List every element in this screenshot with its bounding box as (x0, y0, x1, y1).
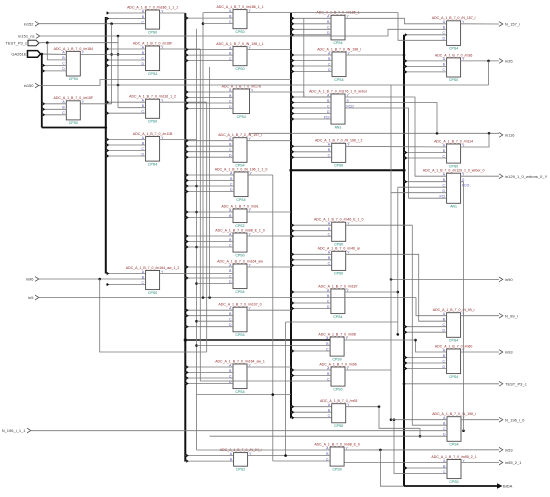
wire rail x118 (117, 36, 119, 108)
wire m15F Y (80, 103, 111, 105)
wire rail x200.3 (199, 49, 201, 381)
wire N_99_i output (461, 315, 499, 317)
svg-text:ADC_A_1_B_7_0_/m55_2_1: ADC_A_1_B_7_0_/m55_2_1 (431, 455, 476, 459)
svg-text:ADC_A_1_B_7_0_/m164_aw_1: ADC_A_1_B_7_0_/m164_aw_1 (215, 359, 265, 363)
wire net N_196_i_1_1 to G36 C (31, 430, 448, 432)
svg-text:CPS0: CPS0 (449, 78, 458, 82)
wire m46_ai Y (346, 254, 447, 321)
wire pin feeds 145.6 (106, 101, 146, 115)
svg-text:ADC_A_1_B_7_0_/N_196_1_1_0: ADC_A_1_B_7_0_/N_196_1_1_0 (215, 167, 268, 171)
bus vertical B4 x404 (403, 35, 405, 486)
wire G33 C feed (398, 186, 447, 188)
svg-text:CPS4: CPS4 (235, 390, 244, 394)
svg-text:CPS4: CPS4 (235, 290, 244, 294)
svg-text:ADC_A_1_B_7_0_/m98_E_1_0: ADC_A_1_B_7_0_/m98_E_1_0 (215, 228, 264, 232)
port in55_2_1 (499, 460, 522, 465)
svg-text:ADC_A_1_B_7_0_/m187: ADC_A_1_B_7_0_/m187 (318, 284, 357, 288)
wire pin feeds 446.6 (404, 325, 447, 334)
wire net in150 with jog (39, 80, 291, 86)
wire N_196_i_1 Y to m114 A (346, 145, 447, 148)
wire pin feeds 446.6 (404, 151, 447, 160)
bus BIDA horizontal y486 (404, 485, 497, 487)
svg-text:in152: in152 (24, 21, 35, 26)
svg-text:ADC_A_1_B_7_0_/m15F: ADC_A_1_B_7_0_/m15F (54, 96, 94, 100)
wire pin feeds 234.0 (185, 173, 234, 193)
wire pin feeds 145.6 (106, 138, 146, 158)
wire m107_0 Y (247, 309, 291, 311)
wire m164_aw_1_2 Y (160, 273, 233, 275)
svg-text:N_196_i_0: N_196_i_0 (505, 417, 525, 422)
gate ADC_A_1_B_7_0_/m15F (CPS0) (54, 96, 94, 125)
bus GA261E branch horizontal y127.5 (42, 127, 106, 129)
wire pin feeds 446.6 (404, 356, 447, 370)
svg-text:in90: in90 (505, 277, 513, 282)
svg-text:CPS0: CPS0 (69, 121, 78, 125)
wire pin feeds 233.0 (185, 265, 233, 279)
wire pin feeds 233.6 (185, 454, 233, 463)
port in150 (24, 83, 39, 88)
wire rail x303.8 (303, 18, 305, 97)
wire pin feeds 331.7 (291, 224, 332, 238)
svg-text:in55_2_1: in55_2_1 (505, 460, 522, 465)
svg-text:in93: in93 (505, 350, 513, 355)
svg-text:CPS0: CPS0 (449, 480, 458, 484)
wire in55_2_1 output (461, 462, 499, 464)
svg-text:TEST_P3_c: TEST_P3_c (5, 41, 27, 46)
port N_196_i_0 (499, 417, 525, 422)
svg-text:ADC_A_1_B_7_0_/m11B: ADC_A_1_B_7_0_/m11B (133, 132, 173, 136)
svg-text:ADC_A_1_B_7_0_/m46_ai: ADC_A_1_B_7_0_/m46_ai (318, 247, 360, 251)
wire m96 Y (345, 369, 391, 371)
svg-text:CPS4: CPS4 (333, 315, 342, 319)
svg-text:CPS4: CPS4 (148, 162, 157, 166)
svg-text:in116: in116 (505, 133, 515, 138)
gate ADC_A_1_B_7_0_/m98 (CPS0) (318, 332, 355, 361)
gate ADC_A_1_B_7_0_/N_196_i_1 (CPS0) (315, 139, 363, 168)
wire rail x206.7 (206, 102, 208, 352)
port BIDA (497, 483, 513, 489)
svg-text:CPS0: CPS0 (148, 120, 157, 124)
wire net in5 (39, 297, 416, 299)
svg-text:CPS4: CPS4 (235, 333, 244, 337)
gate ADC_A_1_B_7_0_/m98_E_0 (CPS0) (314, 442, 360, 471)
wire FCO chain m176 to m129 FCI (345, 108, 447, 198)
wire m11B Y (160, 139, 197, 141)
svg-text:in129_1_0_wrbors_0_Y: in129_1_0_wrbors_0_Y (505, 174, 548, 179)
svg-text:ADC_A_1_B_7_0_/m116_1_2: ADC_A_1_B_7_0_/m116_1_2 (129, 95, 176, 99)
svg-text:CPS0: CPS0 (334, 272, 343, 276)
wire m176 Y (250, 92, 332, 97)
wire rail x415.5 m98Y to m60 A (416, 340, 447, 352)
wire G26 B feed (197, 345, 331, 347)
wire pin feeds 233.0 (185, 210, 233, 219)
svg-text:ADC_A_1_B_7_0_/m129_1_0_wrbor_: ADC_A_1_B_7_0_/m129_1_0_wrbor_0 (423, 169, 485, 173)
wire rail x397.8 (397, 187, 399, 334)
svg-text:CPS4: CPS4 (148, 72, 157, 76)
wire in129 output (461, 175, 499, 177)
gate ADC_A_1_B_7_0_/m186_1 (CPS4) (316, 11, 359, 45)
wire rail x285.6 N_94_i Y branch (285, 322, 287, 456)
svg-text:CPS0: CPS0 (235, 30, 244, 34)
wire m46_E_1_0 Y (346, 224, 413, 226)
bus horizontal net y170 (291, 169, 404, 171)
wire m116_1_2 Y (160, 101, 207, 103)
wire pin feeds 447.0 (404, 466, 447, 469)
wire pin feeds 331.0 (291, 95, 331, 120)
wire G27 C feed (200, 380, 331, 382)
wire N_196_i_0 output (461, 419, 499, 421)
wire m186_1_1 Y (247, 12, 291, 14)
wire in96 branch (100, 279, 207, 352)
wire rail x203 (202, 13, 204, 298)
gate ADC_A_1_B_7_0_/N_94_i (CPS2) (220, 448, 262, 471)
wire m18F Y (160, 48, 201, 50)
wire y394 net (197, 394, 292, 396)
svg-text:ADC_A_1_B_7_0_/m60: ADC_A_1_B_7_0_/m60 (435, 344, 472, 348)
gate ADC_A_1_B_7_0_/m11B (CPS4) (133, 132, 173, 166)
gate ADC_A_1_B_7_0_/N_157_i (CPS4) (432, 16, 476, 50)
wire in35 loop down (488, 61, 490, 85)
wire in93 output (461, 351, 499, 353)
svg-text:ADC_A_1_B_7_0_/m98: ADC_A_1_B_7_0_/m98 (318, 332, 355, 336)
wire N_157_i output (461, 23, 499, 25)
port N_196_i_1_1 (2, 428, 31, 433)
svg-text:N_99_i: N_99_i (505, 313, 518, 318)
svg-text:ADC_A_1_B_7_0_/m176_1_0_wrbor: ADC_A_1_B_7_0_/m176_1_0_wrbor (309, 89, 368, 93)
wire pin feeds 233.0 (185, 16, 233, 19)
wire m114 Y loop (461, 133, 489, 147)
port N_157_i (499, 22, 520, 27)
wire rail x111.6 (111, 24, 113, 104)
svg-text:AN1: AN1 (335, 125, 342, 129)
svg-text:in151_ns: in151_ns (18, 34, 34, 39)
port in53 (499, 447, 513, 452)
gate ADC_A_1_B_7_0_/N_197_i (CPS4) (218, 133, 262, 167)
svg-text:ADC_A_1_B_7_0_/m18F: ADC_A_1_B_7_0_/m18F (133, 41, 173, 45)
wire pin feeds 331.7 (291, 253, 332, 267)
bus vertical B1 x106 (105, 17, 107, 274)
wire net in53 from m98_E_0 Y (344, 449, 499, 451)
wire m184 Y to m18F B (80, 53, 145, 55)
wire rail x196.5 (196, 29, 198, 450)
wire pin feeds 233.0 (185, 309, 233, 329)
wire N_196_1_1_0 Y (248, 174, 273, 176)
wire net in116 (249, 132, 499, 134)
svg-text:CPS4: CPS4 (449, 339, 458, 343)
wire m98_E_1_0 Y (247, 235, 291, 237)
svg-text:ADC_A_1_B_7_0_/m91: ADC_A_1_B_7_0_/m91 (221, 204, 258, 208)
wire rail x272.8 from N_196_1_1_0 Y (272, 175, 274, 461)
wire G37 A feed (345, 462, 448, 464)
wire pin feeds 233.0 (185, 234, 233, 248)
gate ADC_A_1_B_7_0_/N_196_1_1_0 (CPS4) (215, 167, 268, 201)
wire rail x209.6 (209, 67, 211, 298)
wire pin feeds 233.0 (185, 48, 233, 62)
svg-text:ADC_A_1_B_7_0_/m164_aw: ADC_A_1_B_7_0_/m164_aw (217, 259, 263, 263)
gate ADC_A_1_B_7_0_/m98_E_1_0 (CPS0) (215, 228, 264, 257)
svg-text:ADC_A_1_B_7_0_/N_198_i_1: ADC_A_1_B_7_0_/N_198_i_1 (216, 42, 264, 46)
svg-text:ADC_A_1_B_7_0_/m96: ADC_A_1_B_7_0_/m96 (319, 362, 356, 366)
svg-text:CPS4: CPS4 (236, 198, 245, 202)
wire m93 branch (379, 407, 420, 437)
wire pin feeds 331.7 (291, 405, 332, 419)
svg-text:ADC_A_1_B_7_0_/N_198_i: ADC_A_1_B_7_0_/N_198_i (317, 47, 361, 51)
gate ADC_A_1_B_7_0_/m96 (CPS0) (319, 362, 356, 391)
svg-text:CPS4: CPS4 (334, 78, 343, 82)
port in152 (24, 21, 39, 26)
svg-text:CPS4: CPS4 (449, 47, 458, 51)
wire G36 A feed (391, 419, 447, 421)
wire in53 riser to BIDA (380, 450, 404, 486)
bus vertical B3 x291 (290, 13, 292, 419)
svg-text:CPS0: CPS0 (235, 67, 244, 71)
wire net in90 (391, 278, 499, 280)
gate ADC_A_1_B_7_0_/m164_aw_1 (CPS4) (215, 359, 265, 393)
adder ADC_A_1_B_7_0_/m129_1_0_wrbor_0 (AN1) (423, 169, 485, 209)
svg-text:CPS0: CPS0 (148, 30, 157, 34)
svg-text:CPS2: CPS2 (235, 224, 244, 228)
wire m187 Y (345, 291, 398, 293)
wire pin feeds 233.0 (185, 90, 233, 110)
wire adder m176 Y to m129 A (345, 97, 447, 176)
svg-text:in35: in35 (505, 59, 513, 64)
gate ADC_A_1_B_7_0_/m18F (CPS4) (133, 41, 173, 75)
wire pin feeds 233.0 (185, 365, 233, 385)
gate ADC_A_1_B_7_0_/m107_0 (CPS4) (218, 303, 261, 337)
svg-text:CPS4: CPS4 (237, 115, 246, 119)
svg-text:CPS0: CPS0 (333, 467, 342, 471)
wire pin feeds 330.9 (291, 290, 331, 310)
wire G5 B feed (118, 107, 146, 109)
wire pin feeds 145.6 (106, 11, 146, 20)
svg-text:CPS0: CPS0 (333, 387, 342, 391)
wire pin feeds 233.0 (185, 139, 233, 159)
wire rail x463.5 m129 S down (461, 182, 464, 431)
gate ADC_A_1_B_7_0_/N_198_i_1 (CPS0) (216, 42, 264, 71)
port in151_ns (18, 34, 40, 39)
wire net y13 to N_157 D (291, 13, 447, 41)
svg-text:CPS0: CPS0 (333, 357, 342, 361)
svg-text:CPS0: CPS0 (334, 164, 343, 168)
gate ADC_A_1_B_7_0_/m164_aw_1_2 (CPS0) (126, 266, 180, 295)
wire pin feeds 446.6 (404, 180, 447, 183)
wire G16 C feed (197, 320, 234, 322)
gate ADC_A_1_B_7_0_/m114 (CPS0) (434, 139, 473, 168)
wire in35 output (461, 60, 499, 62)
wire pin feeds 331.0 (291, 17, 331, 37)
wire pin feeds 66.3 (42, 102, 67, 116)
gate ADC_A_1_B_7_0_/m186_1_1_1 (CPS0) (127, 5, 178, 34)
port GA261E (pad) (11, 51, 40, 58)
wire pin feeds 446.6 (404, 59, 447, 73)
wire TEST_P3_c drop to m184 B (47, 43, 66, 60)
wire m186_1 Y to N_157 A (345, 18, 447, 24)
port in129_1_0_wrbors_0_Y (499, 174, 548, 179)
port in93 (499, 350, 513, 355)
wire G33 D feed (391, 192, 447, 194)
svg-text:ADC_A_1_B_7_0_/N_157_i: ADC_A_1_B_7_0_/N_157_i (432, 16, 476, 20)
wire pin feeds 66.3 (42, 64, 67, 73)
svg-text:CPS0: CPS0 (235, 253, 244, 257)
wire N_197_i Y (247, 140, 291, 142)
svg-text:ADC_A_1_B_7_0_/m46_E_1_0: ADC_A_1_B_7_0_/m46_E_1_0 (314, 218, 363, 222)
svg-text:CPS0: CPS0 (148, 291, 157, 295)
wire adder m176 S to in116 (345, 103, 437, 134)
wire net TEST_P3_c right (404, 383, 499, 385)
gate ADC_A_1_B_7_0_/m187 (CPS4) (318, 284, 357, 318)
gate ADC_A_1_B_7_0_/N_99_i (CPS4) (433, 308, 475, 342)
gate ADC_A_1_B_7_0_/m93 (CPS0) (320, 399, 357, 428)
svg-text:in5: in5 (28, 295, 34, 300)
svg-text:CPS4: CPS4 (449, 443, 458, 447)
wire G15 D feed (197, 283, 234, 285)
port in116 (499, 133, 515, 138)
gate ADC_A_1_B_7_0_/m46_E_1_0 (CPS0) (314, 218, 363, 247)
wire m164_aw Y (247, 266, 291, 268)
port N_99_i (499, 313, 518, 318)
wire net y85 loop to in35 (106, 84, 489, 86)
svg-text:CPS4: CPS4 (333, 41, 342, 45)
gate ADC_A_1_B_7_0_/m36 (CPS0) (435, 53, 472, 82)
wire m91 Y (247, 211, 291, 213)
svg-text:CPS4: CPS4 (69, 77, 78, 81)
wire y322 net (286, 321, 398, 323)
svg-text:CPS2: CPS2 (236, 467, 245, 471)
wire pin feeds 332.0 (291, 53, 332, 73)
wire m186_1_1_1 Y (160, 12, 186, 14)
gate ADC_A_1_B_7_0_/m60 (CPS4) (435, 344, 472, 378)
gate ADC_A_1_B_7_0_/m55_2_1 (CPS0) (431, 455, 476, 484)
port in96 (26, 277, 39, 282)
wire net in151_ns to N_157 B (40, 29, 447, 36)
svg-text:ADC_A_1_B_7_0_/N_99_i: ADC_A_1_B_7_0_/N_99_i (433, 308, 475, 312)
svg-text:GA261E: GA261E (11, 51, 26, 56)
wire y436 to G36 D (210, 435, 447, 437)
svg-text:ADC_A_1_B_7_0_/m93: ADC_A_1_B_7_0_/m93 (320, 399, 357, 403)
gate ADC_A_1_B_7_0_/m91 (CPS2) (221, 204, 258, 227)
gate ADC_A_1_B_7_0_/m46_ai (CPS0) (318, 247, 360, 276)
gate ADC_A_1_B_7_0_/N_196_i (CPS4) (432, 412, 476, 446)
wire pin feeds 446.6 (404, 33, 447, 36)
gate ADC_A_1_B_7_0_/N_198_i (CPS4) (317, 47, 361, 81)
wire pin feeds 145.6 (106, 47, 146, 67)
bus GA261E branch vertical x41.8 (41, 54, 43, 128)
svg-text:in150: in150 (24, 83, 35, 88)
gate ADC_A_1_B_7_0_/m176 (CPS4) (222, 84, 261, 118)
bus vertical B2 x185 (184, 13, 186, 462)
port TEST_P3_c (5, 40, 39, 46)
port in5 (28, 295, 39, 300)
wire pin feeds 145.6 (106, 272, 146, 286)
wire net GA261E (41, 53, 67, 55)
gate ADC_A_1_B_7_0_/m184 (CPS4) (54, 47, 93, 81)
wire N_198_i Y (346, 54, 404, 56)
adder ADC_A_1_B_7_0_/m176_1_0_wrbor (AN1) (309, 89, 368, 129)
wire net in96 (39, 278, 146, 280)
svg-text:in53: in53 (505, 447, 513, 452)
port in35 (499, 59, 513, 64)
svg-text:CPS0: CPS0 (334, 424, 343, 428)
svg-text:in96: in96 (26, 277, 34, 282)
port in90 (499, 277, 513, 282)
svg-text:ADC_A_1_B_7_0_/N_196_i_1: ADC_A_1_B_7_0_/N_196_i_1 (315, 139, 363, 143)
wire G8 A feed (203, 12, 233, 14)
wire N_198_i_1 Y (247, 49, 291, 51)
wire N_94_i Y to m98_E_0 B (248, 455, 331, 457)
wire m98 Y (344, 339, 415, 341)
wire pin feeds 330.1 (291, 349, 330, 352)
svg-text:ADC_A_1_B_7_0_/m164_aw_1_2: ADC_A_1_B_7_0_/m164_aw_1_2 (126, 266, 180, 270)
wire m93 Y (346, 406, 379, 408)
gate ADC_A_1_B_7_0_/m164_aw (CPS4) (217, 259, 263, 293)
svg-text:AN1: AN1 (450, 205, 457, 209)
wire in5 to N_99_i A (416, 298, 447, 316)
svg-text:N_157_i: N_157_i (505, 22, 520, 27)
wire G29 C feed (273, 460, 330, 462)
port TEST_P3_c (499, 381, 527, 386)
svg-text:ADC_A_1_B_7_0_/N_197_i: ADC_A_1_B_7_0_/N_197_i (218, 133, 262, 137)
svg-text:ADC_A_1_B_7_0_/m107_0: ADC_A_1_B_7_0_/m107_0 (218, 303, 261, 307)
wire net TEST_P3_c left (38, 42, 118, 44)
wire m164_aw_1 Y (247, 366, 291, 368)
svg-text:ADC_A_1_B_7_0_/m114: ADC_A_1_B_7_0_/m114 (434, 139, 473, 143)
bus m98 feed y340 (185, 339, 330, 341)
wire G8 C feed (203, 23, 233, 25)
svg-text:BIDA: BIDA (503, 484, 513, 489)
wire rail x391 (390, 85, 392, 420)
svg-text:CPS4: CPS4 (449, 375, 458, 379)
svg-text:ADC_A_1_B_7_0_/m98_E_0: ADC_A_1_B_7_0_/m98_E_0 (314, 442, 360, 446)
svg-text:ADC_A_1_B_7_0_/m184: ADC_A_1_B_7_0_/m184 (54, 47, 93, 51)
wire G37 C feed (394, 420, 447, 474)
svg-text:ADC_A_1_B_7_0_/m186_1_1_1: ADC_A_1_B_7_0_/m186_1_1_1 (127, 5, 178, 9)
wire G29 A feed (197, 449, 331, 451)
wire rail x412.3 m46_E to G36 B (412, 225, 447, 425)
svg-text:ADC_A_1_B_7_0_/m36: ADC_A_1_B_7_0_/m36 (435, 53, 472, 57)
svg-text:N_196_i_1_1: N_196_i_1_1 (2, 428, 27, 433)
gate ADC_A_1_B_7_0_/m186_1_1 (CPS0) (216, 5, 263, 34)
svg-text:ADC_A_1_B_7_0_/N_196_i: ADC_A_1_B_7_0_/N_196_i (432, 412, 476, 416)
wire pin feeds 331.0 (291, 368, 331, 377)
wire net in152 to m186_1_1_1 C (39, 23, 146, 25)
gate ADC_A_1_B_7_0_/m116_1_2 (CPS0) (129, 95, 176, 124)
svg-text:ADC_A_1_B_7_0_/m186_1_1: ADC_A_1_B_7_0_/m186_1_1 (216, 5, 263, 9)
svg-text:TEST_P3_c: TEST_P3_c (505, 381, 527, 386)
wire pin feeds 331.7 (291, 145, 332, 159)
